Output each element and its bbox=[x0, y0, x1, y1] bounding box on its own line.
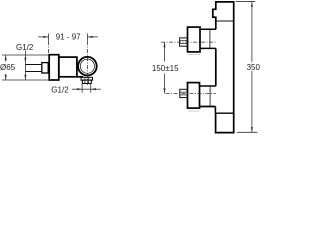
bottom flange divider bbox=[209, 86, 211, 107]
outlet nut facets bbox=[85, 77, 89, 83]
lower body section top edge bbox=[216, 112, 234, 114]
dimension arrows O65 bbox=[5, 55, 7, 80]
centerline vertical bbox=[86, 41, 88, 85]
dimension 150+-15 bbox=[163, 42, 165, 93]
top flange divider bbox=[209, 29, 211, 48]
wall fitting bbox=[42, 63, 48, 73]
bottom boss bottom line bbox=[199, 106, 215, 108]
dimension 91-97 right arrow bbox=[87, 33, 98, 41]
knob skirt shadow bottom bbox=[188, 110, 200, 112]
leader line G1/2 with arrows bbox=[24, 51, 26, 80]
top knob tip bbox=[180, 38, 188, 46]
svg-text:91 - 97: 91 - 97 bbox=[56, 32, 81, 41]
svg-text:G1/2: G1/2 bbox=[51, 85, 69, 94]
body bar outline bbox=[213, 2, 234, 133]
svg-text:Ø65: Ø65 bbox=[0, 63, 16, 72]
inlet pipe bbox=[25, 65, 41, 72]
body section 2 bbox=[59, 57, 77, 77]
extension dash-dot to body bbox=[48, 41, 50, 54]
bottom knob tip bbox=[180, 89, 188, 97]
top centerline bbox=[161, 41, 216, 43]
outlet nut bbox=[81, 77, 92, 83]
body left edge mid bbox=[215, 48, 217, 86]
knob circle outer bbox=[78, 57, 97, 76]
body joint line bbox=[216, 20, 234, 22]
svg-text:350: 350 bbox=[247, 63, 260, 72]
top knob bbox=[188, 27, 201, 52]
bottom dimension G1/2 bbox=[72, 88, 101, 90]
bottom centerline bbox=[166, 92, 216, 94]
top boss bbox=[200, 29, 216, 48]
bottom boss top line bbox=[199, 85, 215, 87]
bottom step to lower body bbox=[214, 107, 216, 114]
svg-text:G1/2: G1/2 bbox=[16, 43, 34, 52]
dimension 350 bbox=[251, 2, 253, 133]
dimension 91-97 left arrow bbox=[38, 33, 48, 41]
350 extension line bottom bbox=[237, 131, 258, 133]
extension line bottom (O65 lower) bbox=[2, 79, 49, 81]
extension ticks bottom dimension bbox=[82, 84, 91, 93]
extension line top (O65 upper) bbox=[2, 54, 49, 56]
knob circle inner bbox=[80, 59, 94, 73]
support ledge under knob bbox=[77, 76, 83, 78]
svg-text:150±15: 150±15 bbox=[152, 64, 179, 73]
escutcheon body section bbox=[49, 55, 59, 80]
bottom knob bbox=[188, 83, 200, 109]
knob skirt shadow top bbox=[188, 54, 200, 56]
350 extension line top bbox=[236, 1, 255, 3]
